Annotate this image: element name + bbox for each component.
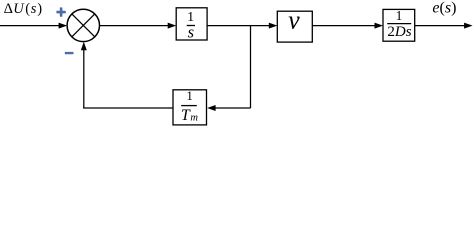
svg-text:v: v: [288, 6, 300, 35]
block 1/2Ds: [383, 8, 415, 41]
block 1/s: [176, 8, 207, 42]
block v: [277, 6, 312, 43]
minus sign (blue): [65, 52, 74, 54]
svg-text:1: 1: [186, 88, 193, 103]
svg-text:1: 1: [396, 8, 403, 23]
svg-text:2Ds: 2Ds: [387, 24, 411, 40]
block 1/Tm: [173, 88, 207, 125]
wire block v to block 1/2Ds: [312, 23, 383, 29]
plus sign (blue): [56, 7, 65, 16]
svg-text:s: s: [188, 23, 194, 42]
wire feedback left segment from block 1/Tm: [83, 107, 173, 109]
wire block 1/s to block v: [207, 23, 277, 29]
svg-text:ΔU(s): ΔU(s): [4, 1, 43, 17]
wire feedback up into summing junction: [81, 42, 87, 108]
svg-text:e(s): e(s): [432, 0, 456, 17]
wire feedback right segment into block 1/Tm: [207, 105, 250, 111]
node output label e(s): [432, 0, 456, 17]
wire input to summing junction: [0, 23, 67, 29]
summing junction: [67, 9, 99, 41]
wire output: [415, 23, 473, 29]
takeoff node wire down: [250, 26, 252, 108]
wire summing junction to block 1/s: [100, 23, 177, 29]
node input label DeltaU(s): [4, 1, 43, 17]
